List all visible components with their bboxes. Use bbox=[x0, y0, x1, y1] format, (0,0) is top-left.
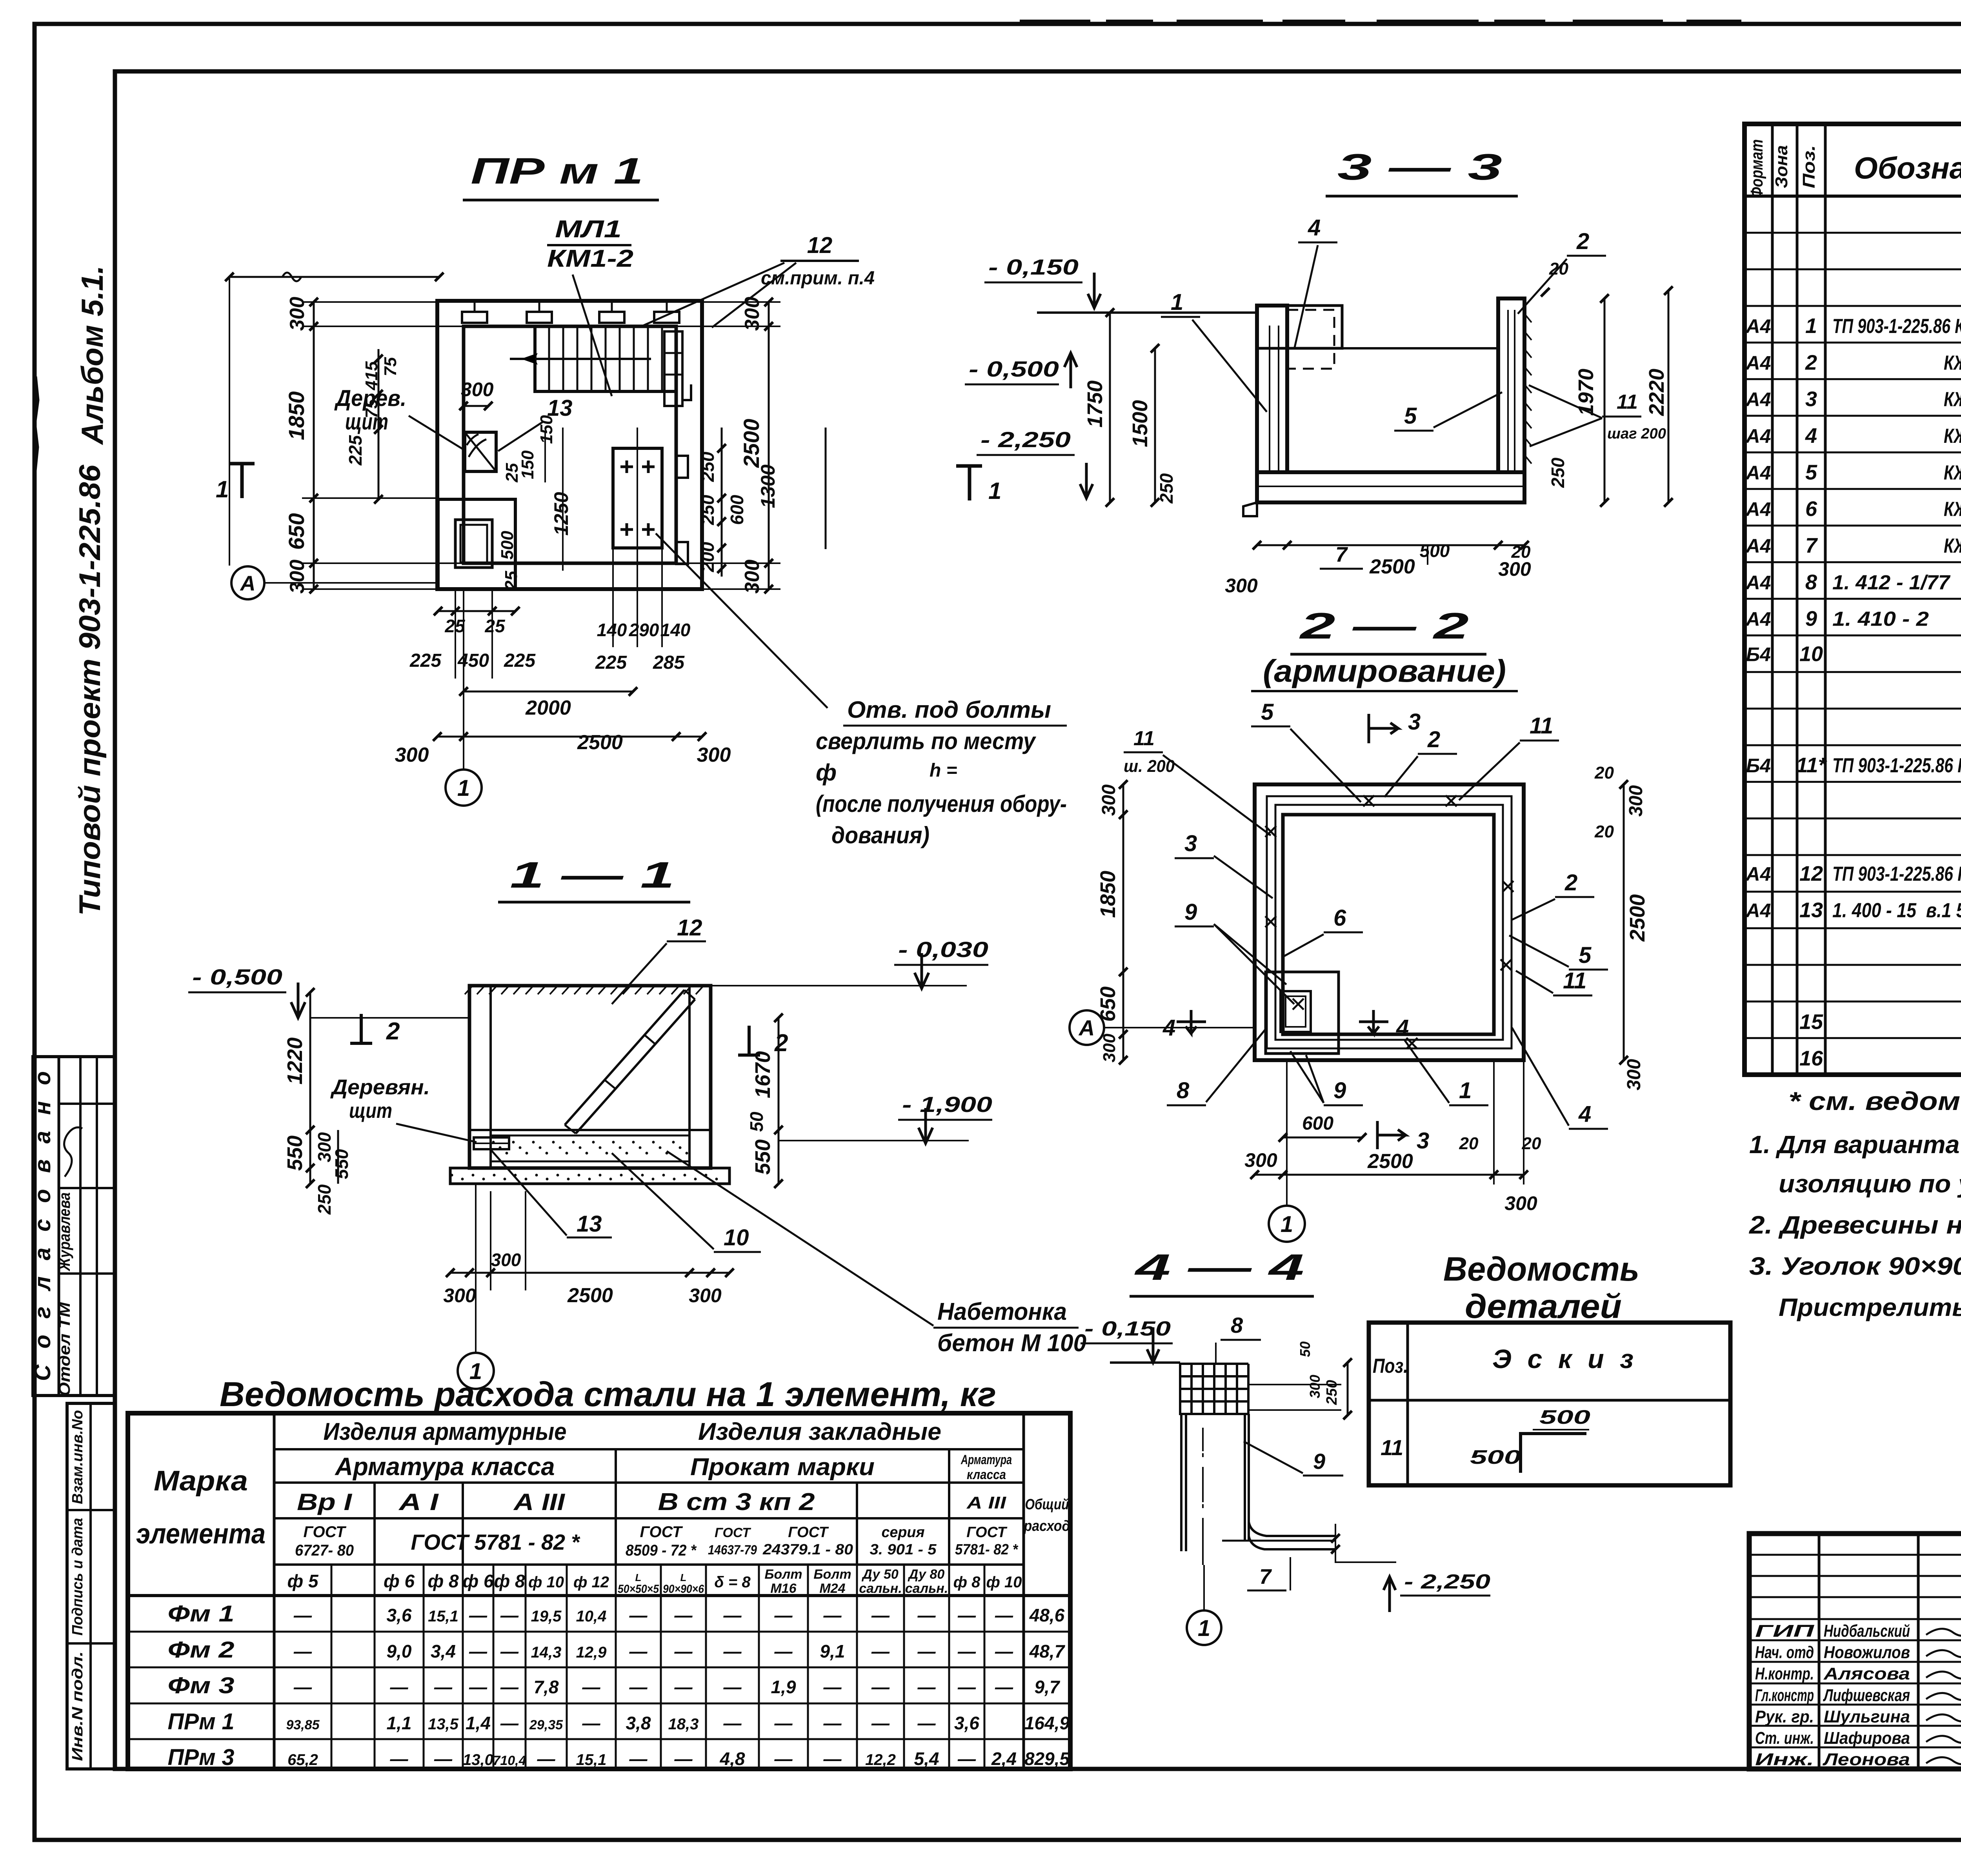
svg-text:300: 300 bbox=[286, 297, 309, 331]
svg-text:300: 300 bbox=[1100, 1034, 1119, 1063]
svg-text:450: 450 bbox=[457, 650, 489, 671]
svg-text:710,4: 710,4 bbox=[493, 1753, 526, 1768]
svg-text:13: 13 bbox=[1799, 899, 1823, 922]
svg-text:5,4: 5,4 bbox=[914, 1749, 939, 1769]
svg-text:—: — bbox=[434, 1749, 453, 1769]
svg-text:Типовой проект 903-1-225.86: Типовой проект 903-1-225.86 bbox=[73, 464, 107, 916]
svg-text:шаг 200: шаг 200 bbox=[1607, 426, 1666, 442]
svg-text:—: — bbox=[582, 1713, 601, 1733]
svg-text:19,5: 19,5 bbox=[531, 1608, 562, 1625]
svg-text:—: — bbox=[674, 1641, 693, 1661]
svg-text:225: 225 bbox=[504, 650, 536, 671]
svg-text:200: 200 bbox=[697, 542, 718, 572]
svg-text:1: 1 bbox=[1805, 314, 1817, 338]
svg-text:ГОСТ: ГОСТ bbox=[304, 1523, 347, 1541]
svg-text:серия: серия bbox=[882, 1524, 925, 1541]
svg-text:2: 2 bbox=[1564, 870, 1577, 895]
svg-text:4: 4 bbox=[1805, 424, 1817, 448]
svg-text:Леонова: Леонова bbox=[1822, 1750, 1910, 1769]
svg-text:25: 25 bbox=[502, 571, 521, 590]
svg-text:550: 550 bbox=[751, 1139, 775, 1175]
svg-text:Формат: Формат bbox=[1747, 139, 1766, 198]
svg-text:КЖ1.И. ПРм1. 40: КЖ1.И. ПРм1. 40 bbox=[1944, 425, 1961, 448]
svg-text:ТП 903-1-225.86 КЖ1.И.ПРм1.2: ТП 903-1-225.86 КЖ1.И.ПРм1.2 bbox=[1832, 862, 1961, 885]
svg-text:1: 1 bbox=[1198, 1616, 1210, 1641]
svg-text:ТП 903-1-225.86 КЖ1.И.ПРм1. 10: ТП 903-1-225.86 КЖ1.И.ПРм1. 10 bbox=[1832, 315, 1961, 338]
svg-text:75: 75 bbox=[381, 357, 400, 376]
svg-text:48,7: 48,7 bbox=[1029, 1641, 1066, 1661]
svg-text:—: — bbox=[774, 1749, 793, 1769]
svg-text:25: 25 bbox=[484, 616, 506, 636]
svg-text:сальн.: сальн. bbox=[859, 1581, 902, 1596]
svg-text:1 — 1: 1 — 1 bbox=[510, 854, 675, 895]
svg-text:Альбом 5.1.: Альбом 5.1. bbox=[75, 266, 109, 446]
svg-text:А: А bbox=[240, 571, 256, 595]
svg-text:2 — 2: 2 — 2 bbox=[1299, 605, 1469, 646]
svg-text:Поз.: Поз. bbox=[1373, 1355, 1408, 1377]
svg-text:А4: А4 bbox=[1745, 499, 1771, 520]
svg-text:ГОСТ: ГОСТ bbox=[640, 1523, 684, 1541]
svg-text:550: 550 bbox=[283, 1135, 307, 1171]
svg-text:9,1: 9,1 bbox=[820, 1641, 845, 1661]
svg-text:250: 250 bbox=[314, 1184, 335, 1215]
svg-text:5781- 82 *: 5781- 82 * bbox=[955, 1541, 1019, 1558]
svg-text:290: 290 bbox=[629, 620, 659, 640]
svg-text:А4: А4 bbox=[1745, 352, 1771, 374]
svg-text:2500: 2500 bbox=[1369, 555, 1415, 578]
svg-text:—: — bbox=[582, 1677, 601, 1697]
svg-text:А4: А4 bbox=[1745, 571, 1771, 593]
svg-text:2,4: 2,4 bbox=[991, 1749, 1017, 1769]
svg-text:Инж.: Инж. bbox=[1755, 1750, 1814, 1769]
svg-text:1. Для варианта с грунтовыми: 1. Для варианта с грунтовыми водами выпо… bbox=[1749, 1130, 1961, 1159]
svg-text:Арматура класса: Арматура класса bbox=[335, 1452, 555, 1481]
svg-text:250: 250 bbox=[697, 495, 718, 525]
svg-text:1970: 1970 bbox=[1574, 369, 1598, 416]
svg-text:5: 5 bbox=[1261, 699, 1274, 725]
svg-text:300: 300 bbox=[286, 560, 309, 594]
svg-text:12: 12 bbox=[677, 915, 702, 941]
svg-text:2: 2 bbox=[1805, 351, 1817, 374]
svg-text:14,3: 14,3 bbox=[531, 1644, 562, 1661]
svg-text:Обозначение: Обозначение bbox=[1854, 151, 1961, 185]
svg-text:Поз.: Поз. bbox=[1799, 145, 1819, 188]
svg-text:—: — bbox=[629, 1641, 648, 1661]
svg-text:—: — bbox=[957, 1605, 976, 1625]
svg-text:250: 250 bbox=[1548, 457, 1568, 488]
svg-text:300: 300 bbox=[491, 1250, 521, 1270]
svg-text:10: 10 bbox=[1799, 642, 1823, 666]
svg-text:250: 250 bbox=[1324, 1380, 1340, 1405]
svg-text:Болт: Болт bbox=[764, 1567, 802, 1582]
svg-text:элемента: элемента bbox=[136, 1518, 266, 1550]
svg-text:300: 300 bbox=[741, 560, 764, 594]
svg-text:Гл.констр: Гл.констр bbox=[1755, 1686, 1814, 1705]
svg-text:—: — bbox=[871, 1713, 890, 1733]
svg-text:М24: М24 bbox=[819, 1581, 845, 1596]
svg-text:ГИП: ГИП bbox=[1755, 1621, 1815, 1641]
svg-text:285: 285 bbox=[653, 652, 685, 673]
svg-text:А: А bbox=[1078, 1015, 1095, 1040]
svg-text:—: — bbox=[500, 1677, 519, 1697]
svg-text:550: 550 bbox=[331, 1149, 352, 1179]
svg-text:2500: 2500 bbox=[1626, 894, 1649, 942]
svg-text:650: 650 bbox=[284, 513, 309, 550]
svg-text:Ведомость: Ведомость bbox=[1443, 1250, 1639, 1288]
svg-text:500: 500 bbox=[1470, 1446, 1521, 1468]
svg-text:—: — bbox=[823, 1713, 842, 1733]
svg-text:300: 300 bbox=[1626, 785, 1646, 817]
svg-text:Алясова: Алясова bbox=[1823, 1664, 1910, 1683]
svg-text:Прокат марки: Прокат марки bbox=[690, 1454, 875, 1481]
svg-text:ф 10: ф 10 bbox=[986, 1574, 1022, 1591]
svg-text:—: — bbox=[390, 1749, 409, 1769]
svg-text:6: 6 bbox=[1333, 905, 1346, 931]
svg-text:класса: класса bbox=[967, 1467, 1006, 1482]
svg-text:ГОСТ: ГОСТ bbox=[966, 1524, 1007, 1541]
svg-text:5: 5 bbox=[1404, 403, 1417, 429]
svg-text:(армирование): (армирование) bbox=[1263, 653, 1506, 688]
svg-text:1. 400 - 15 в.1 550 - 05: 1. 400 - 15 в.1 550 - 05 bbox=[1832, 899, 1961, 922]
svg-text:—: — bbox=[629, 1605, 648, 1625]
svg-text:164,9: 164,9 bbox=[1024, 1713, 1070, 1733]
svg-text:1850: 1850 bbox=[1096, 871, 1120, 918]
svg-text:3,8: 3,8 bbox=[626, 1713, 651, 1733]
svg-text:11: 11 bbox=[1617, 391, 1638, 413]
svg-text:8: 8 bbox=[1231, 1313, 1243, 1337]
svg-text:ш. 200: ш. 200 bbox=[1124, 757, 1175, 776]
svg-text:150: 150 bbox=[537, 415, 556, 444]
svg-text:Марка: Марка bbox=[154, 1465, 248, 1497]
svg-text:1,9: 1,9 bbox=[771, 1677, 796, 1697]
svg-text:ф 5: ф 5 bbox=[287, 1571, 318, 1591]
svg-text:Ду 50: Ду 50 bbox=[861, 1567, 899, 1582]
svg-text:КЖ1.И. ПРм1. 50: КЖ1.И. ПРм1. 50 bbox=[1944, 461, 1961, 484]
svg-text:Подпись и дата: Подпись и дата bbox=[69, 1518, 86, 1636]
svg-text:11: 11 bbox=[1563, 968, 1586, 993]
svg-text:2. Древесины на изготовлени: 2. Древесины на изготовление щита - 0,01… bbox=[1749, 1211, 1961, 1239]
svg-text:Лифшевская: Лифшевская bbox=[1823, 1686, 1910, 1705]
svg-text:L: L bbox=[635, 1572, 642, 1583]
svg-text:—: — bbox=[469, 1677, 488, 1697]
svg-text:—: — bbox=[917, 1605, 936, 1625]
svg-text:Фм 2: Фм 2 bbox=[168, 1637, 235, 1663]
svg-text:А4: А4 bbox=[1745, 535, 1771, 557]
svg-text:Шульгина: Шульгина bbox=[1824, 1707, 1910, 1726]
svg-text:1850: 1850 bbox=[284, 391, 309, 440]
svg-text:Ду 80: Ду 80 bbox=[908, 1567, 945, 1582]
svg-text:3,6: 3,6 bbox=[387, 1605, 412, 1625]
svg-text:—: — bbox=[674, 1749, 693, 1769]
svg-text:3,4: 3,4 bbox=[431, 1641, 456, 1661]
svg-text:1750: 1750 bbox=[1083, 380, 1107, 428]
svg-text:7: 7 bbox=[1805, 534, 1818, 557]
svg-text:8: 8 bbox=[1177, 1078, 1190, 1103]
svg-text:—: — bbox=[723, 1713, 742, 1733]
svg-text:—: — bbox=[774, 1713, 793, 1733]
svg-text:1: 1 bbox=[1171, 289, 1183, 315]
svg-text:2500: 2500 bbox=[739, 419, 764, 468]
svg-text:2500: 2500 bbox=[567, 1284, 613, 1307]
svg-text:—: — bbox=[629, 1677, 648, 1697]
svg-text:3. Уголок 90×90×6 (ℓ = 200): 3. Уголок 90×90×6 (ℓ = 200) шаг по стойк… bbox=[1749, 1252, 1961, 1280]
svg-text:11*: 11* bbox=[1796, 753, 1827, 777]
svg-text:—: — bbox=[823, 1605, 842, 1625]
svg-text:Деревян.: Деревян. bbox=[330, 1075, 430, 1099]
svg-text:- 1,900: - 1,900 bbox=[902, 1092, 992, 1117]
svg-text:А III: А III bbox=[966, 1493, 1006, 1512]
svg-text:—: — bbox=[723, 1641, 742, 1661]
svg-text:1. 412 - 1/77 в. 3: 1. 412 - 1/77 в. 3 bbox=[1832, 571, 1961, 594]
svg-text:А4: А4 bbox=[1745, 900, 1771, 922]
svg-text:—: — bbox=[995, 1641, 1013, 1661]
svg-text:КМ1-2: КМ1-2 bbox=[547, 245, 633, 272]
svg-text:Пристрелить к стенке при м: Пристрелить к стенке при монтаже. bbox=[1779, 1293, 1961, 1321]
svg-text:29,35: 29,35 bbox=[529, 1718, 563, 1732]
svg-text:Набетонка: Набетонка bbox=[937, 1298, 1067, 1325]
svg-text:140: 140 bbox=[660, 620, 691, 640]
svg-text:5: 5 bbox=[1579, 943, 1592, 968]
svg-text:—: — bbox=[723, 1605, 742, 1625]
svg-text:90×90×6: 90×90×6 bbox=[663, 1583, 704, 1596]
svg-text:11: 11 bbox=[1381, 1435, 1403, 1460]
svg-text:Нач. отд: Нач. отд bbox=[1755, 1643, 1814, 1662]
svg-text:7: 7 bbox=[1259, 1565, 1272, 1589]
svg-text:13,5: 13,5 bbox=[428, 1716, 459, 1733]
svg-text:Болт: Болт bbox=[813, 1567, 851, 1582]
svg-text:Эскиз: Эскиз bbox=[1492, 1344, 1634, 1374]
svg-text:415: 415 bbox=[362, 361, 381, 391]
svg-text:—: — bbox=[957, 1749, 976, 1769]
svg-text:12: 12 bbox=[807, 233, 833, 258]
svg-text:4: 4 bbox=[1308, 215, 1321, 240]
svg-text:А III: А III bbox=[513, 1489, 566, 1515]
svg-text:- 0,030: - 0,030 bbox=[898, 937, 988, 962]
svg-text:20: 20 bbox=[1511, 542, 1531, 562]
svg-text:1300: 1300 bbox=[757, 464, 779, 508]
svg-text:—: — bbox=[871, 1641, 890, 1661]
svg-text:5: 5 bbox=[1805, 460, 1817, 484]
svg-text:300: 300 bbox=[1244, 1149, 1277, 1171]
svg-text:500: 500 bbox=[1420, 540, 1450, 561]
svg-text:Шафирова: Шафирова bbox=[1824, 1729, 1910, 1748]
svg-text:бетон М 100: бетон М 100 bbox=[937, 1330, 1086, 1357]
svg-text:деталей: деталей bbox=[1465, 1288, 1622, 1325]
svg-text:250: 250 bbox=[1156, 473, 1177, 504]
svg-text:20: 20 bbox=[1459, 1134, 1479, 1153]
svg-text:А4: А4 bbox=[1745, 863, 1771, 885]
svg-text:КЖ1.И. ПРм1. 60: КЖ1.И. ПРм1. 60 bbox=[1944, 498, 1961, 521]
svg-text:75: 75 bbox=[362, 399, 381, 418]
svg-text:1: 1 bbox=[1459, 1078, 1472, 1103]
svg-text:А4: А4 bbox=[1745, 608, 1771, 630]
svg-text:—: — bbox=[957, 1677, 976, 1697]
svg-text:300: 300 bbox=[1099, 784, 1119, 816]
svg-text:изоляцию по узлу 2 на листе 8.: изоляцию по узлу 2 на листе 8. bbox=[1779, 1170, 1961, 1198]
svg-text:20: 20 bbox=[1594, 763, 1614, 782]
svg-text:2500: 2500 bbox=[1367, 1150, 1413, 1173]
svg-text:А4: А4 bbox=[1745, 425, 1771, 447]
svg-text:4: 4 bbox=[1396, 1015, 1409, 1041]
svg-text:Арматура: Арматура bbox=[960, 1452, 1012, 1467]
svg-text:50: 50 bbox=[746, 1112, 767, 1132]
svg-text:8: 8 bbox=[1805, 570, 1817, 594]
svg-text:2: 2 bbox=[1427, 727, 1440, 752]
svg-text:ф 6: ф 6 bbox=[462, 1571, 493, 1591]
svg-text:ф 12: ф 12 bbox=[573, 1574, 609, 1591]
svg-text:1: 1 bbox=[988, 478, 1001, 504]
svg-text:Вр I: Вр I bbox=[297, 1489, 353, 1515]
svg-text:—: — bbox=[500, 1605, 519, 1625]
svg-text:δ = 8: δ = 8 bbox=[714, 1574, 751, 1591]
svg-text:16: 16 bbox=[1799, 1047, 1823, 1070]
svg-text:10,4: 10,4 bbox=[576, 1608, 607, 1625]
svg-text:300: 300 bbox=[461, 378, 494, 400]
svg-text:93,85: 93,85 bbox=[286, 1718, 320, 1732]
svg-text:3: 3 bbox=[1408, 709, 1421, 735]
svg-text:ф 8: ф 8 bbox=[953, 1574, 981, 1591]
svg-text:щит: щит bbox=[349, 1099, 392, 1123]
svg-text:—: — bbox=[723, 1677, 742, 1697]
svg-text:Фм 3: Фм 3 bbox=[168, 1673, 235, 1698]
svg-text:225: 225 bbox=[595, 652, 627, 673]
svg-text:300: 300 bbox=[697, 744, 731, 766]
svg-text:9: 9 bbox=[1805, 607, 1817, 631]
svg-text:—: — bbox=[537, 1749, 556, 1769]
svg-text:В ст 3 кп 2: В ст 3 кп 2 bbox=[658, 1488, 815, 1516]
svg-text:300: 300 bbox=[689, 1285, 722, 1306]
svg-text:3: 3 bbox=[1805, 388, 1817, 411]
svg-text:—: — bbox=[774, 1641, 793, 1661]
svg-text:7: 7 bbox=[1335, 543, 1348, 566]
svg-text:11: 11 bbox=[1530, 713, 1553, 739]
svg-text:М16: М16 bbox=[770, 1581, 797, 1596]
svg-text:2220: 2220 bbox=[1645, 369, 1668, 416]
svg-text:1: 1 bbox=[1281, 1212, 1293, 1237]
svg-text:Изделия закладные: Изделия закладные bbox=[698, 1418, 941, 1445]
svg-text:500: 500 bbox=[1539, 1406, 1590, 1428]
svg-text:20: 20 bbox=[1522, 1134, 1541, 1153]
svg-text:4: 4 bbox=[1578, 1101, 1591, 1127]
svg-text:- 2,250: - 2,250 bbox=[1404, 1570, 1490, 1593]
svg-text:—: — bbox=[917, 1713, 936, 1733]
svg-text:225: 225 bbox=[345, 435, 366, 466]
svg-text:1: 1 bbox=[457, 775, 470, 801]
svg-text:Нидбальский: Нидбальский bbox=[1824, 1621, 1910, 1641]
svg-text:А4: А4 bbox=[1745, 462, 1771, 484]
svg-text:—: — bbox=[995, 1677, 1013, 1697]
svg-text:1250: 1250 bbox=[550, 492, 572, 535]
svg-text:—: — bbox=[293, 1605, 312, 1625]
svg-text:Н.контр.: Н.контр. bbox=[1755, 1664, 1814, 1683]
svg-text:ГОСТ: ГОСТ bbox=[715, 1525, 751, 1540]
svg-text:250: 250 bbox=[697, 451, 718, 482]
svg-text:—: — bbox=[293, 1677, 312, 1697]
svg-text:15: 15 bbox=[1799, 1010, 1823, 1034]
svg-text:ПРм 3: ПРм 3 bbox=[168, 1745, 235, 1770]
svg-text:Зона: Зона bbox=[1772, 145, 1791, 188]
svg-text:ГОСТ 5781 - 82 *: ГОСТ 5781 - 82 * bbox=[411, 1530, 580, 1554]
svg-text:—: — bbox=[774, 1605, 793, 1625]
svg-text:ф 8: ф 8 bbox=[427, 1571, 458, 1591]
svg-text:225: 225 bbox=[409, 650, 442, 671]
svg-text:9,0: 9,0 bbox=[387, 1641, 412, 1661]
svg-text:600: 600 bbox=[727, 495, 747, 525]
svg-text:12,2: 12,2 bbox=[865, 1751, 896, 1769]
svg-text:—: — bbox=[917, 1677, 936, 1697]
svg-text:—: — bbox=[957, 1641, 976, 1661]
svg-text:—: — bbox=[469, 1641, 488, 1661]
svg-text:- 0,150: - 0,150 bbox=[1084, 1317, 1171, 1340]
svg-text:300: 300 bbox=[1504, 1192, 1537, 1214]
svg-text:—: — bbox=[995, 1605, 1013, 1625]
svg-text:Инв.N подл.: Инв.N подл. bbox=[69, 1651, 86, 1761]
svg-text:—: — bbox=[917, 1641, 936, 1661]
svg-text:3: 3 bbox=[1184, 831, 1197, 856]
svg-text:—: — bbox=[674, 1677, 693, 1697]
svg-text:ф 10: ф 10 bbox=[528, 1574, 564, 1591]
svg-text:Рук. гр.: Рук. гр. bbox=[1755, 1707, 1814, 1726]
svg-text:КЖ1.И. ПРм1. 70: КЖ1.И. ПРм1. 70 bbox=[1944, 535, 1961, 557]
svg-text:—: — bbox=[674, 1605, 693, 1625]
svg-text:10: 10 bbox=[724, 1225, 749, 1250]
svg-text:1: 1 bbox=[216, 476, 229, 502]
svg-text:—: — bbox=[500, 1641, 519, 1661]
svg-text:- 2,250: - 2,250 bbox=[980, 427, 1071, 452]
svg-text:А4: А4 bbox=[1745, 315, 1771, 337]
svg-text:Б4: Б4 bbox=[1746, 643, 1771, 665]
svg-text:300: 300 bbox=[1225, 575, 1258, 597]
svg-text:КЖ1.И. ПРм1. 30: КЖ1.И. ПРм1. 30 bbox=[1944, 388, 1961, 411]
svg-text:2: 2 bbox=[1576, 229, 1589, 254]
svg-text:Новожилов: Новожилов bbox=[1824, 1643, 1910, 1662]
svg-text:дования): дования) bbox=[831, 822, 930, 848]
svg-text:300: 300 bbox=[741, 297, 764, 331]
svg-text:h =: h = bbox=[930, 760, 957, 781]
svg-text:1220: 1220 bbox=[283, 1037, 307, 1084]
svg-text:15,1: 15,1 bbox=[428, 1608, 458, 1625]
svg-text:2000: 2000 bbox=[525, 697, 571, 719]
svg-text:9: 9 bbox=[1313, 1449, 1325, 1474]
svg-text:ПРм 1: ПРм 1 bbox=[168, 1709, 235, 1734]
svg-text:2: 2 bbox=[386, 1018, 400, 1045]
svg-text:ТП 903-1-225.86 КЖ1.И.ПРм1.1: ТП 903-1-225.86 КЖ1.И.ПРм1.1 bbox=[1832, 754, 1961, 777]
svg-text:ф 8: ф 8 bbox=[494, 1571, 525, 1591]
svg-text:9: 9 bbox=[1333, 1078, 1346, 1103]
svg-text:1,1: 1,1 bbox=[387, 1713, 412, 1733]
svg-text:7,8: 7,8 bbox=[534, 1677, 559, 1697]
svg-text:—: — bbox=[871, 1605, 890, 1625]
svg-text:500: 500 bbox=[498, 531, 517, 560]
svg-text:15,1: 15,1 bbox=[576, 1751, 607, 1769]
svg-text:КЖ1.И. ПРм1. 20: КЖ1.И. ПРм1. 20 bbox=[1944, 351, 1961, 374]
svg-text:12,9: 12,9 bbox=[576, 1644, 607, 1661]
svg-text:А I: А I bbox=[398, 1489, 439, 1515]
svg-text:600: 600 bbox=[1302, 1113, 1333, 1134]
svg-text:—: — bbox=[500, 1713, 519, 1733]
svg-text:МЛ1: МЛ1 bbox=[555, 216, 622, 243]
svg-text:3. 901 - 5: 3. 901 - 5 bbox=[870, 1541, 937, 1558]
svg-text:14637-79: 14637-79 bbox=[708, 1543, 757, 1558]
svg-text:- 0,500: - 0,500 bbox=[969, 357, 1059, 381]
svg-text:140: 140 bbox=[597, 620, 627, 640]
svg-text:Общий: Общий bbox=[1025, 1496, 1069, 1513]
svg-text:ПР м 1: ПР м 1 bbox=[471, 150, 643, 191]
svg-text:сальн.: сальн. bbox=[905, 1581, 948, 1596]
svg-text:50: 50 bbox=[1297, 1341, 1313, 1357]
svg-text:300: 300 bbox=[443, 1285, 476, 1306]
svg-text:3 — 3: 3 — 3 bbox=[1337, 146, 1502, 187]
